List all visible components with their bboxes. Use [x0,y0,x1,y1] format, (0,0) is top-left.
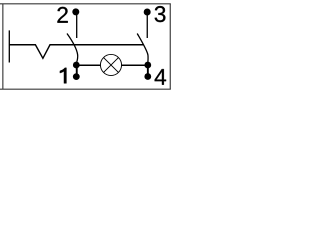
node junction right upper dot [144,62,151,69]
label 4 [155,69,166,85]
wire link dots 4 [147,64,149,77]
node 2 terminal dot [72,8,79,15]
wire stem from terminal 3 [146,12,148,38]
wire actuating rail with V notch [9,45,143,59]
node 1 terminal dot [73,73,80,80]
node 3 terminal dot [144,9,151,16]
actuator bar (plunger) [8,30,10,62]
wire lamp left [79,64,101,66]
switch S1 blade (contact 1-2) [67,34,78,64]
wire link dots 1 [76,64,78,77]
node 4 terminal dot [144,73,151,80]
switch S2 blade (contact 3-4) [137,34,148,64]
lamp L1 circle [100,54,121,75]
wire stem from terminal 2 [76,12,78,38]
label 2 [57,7,67,23]
node junction left upper dot [73,62,80,69]
border frame [0,4,171,89]
wire lamp right [121,64,144,66]
label 1 [60,68,67,84]
lamp L1 cross [104,58,119,73]
label 3 [155,6,166,22]
